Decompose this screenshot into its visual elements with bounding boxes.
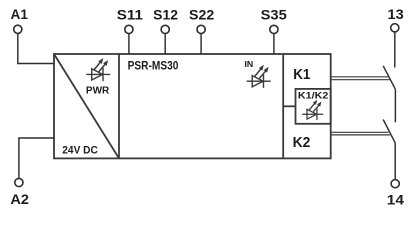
LED IN symbol xyxy=(247,66,271,88)
wire S11 xyxy=(128,34,130,54)
power supply diagonal xyxy=(54,54,119,158)
terminal A2 circle xyxy=(15,178,23,186)
svg-text:PWR: PWR xyxy=(86,86,110,97)
svg-text:S11: S11 xyxy=(117,8,144,23)
svg-text:13: 13 xyxy=(388,7,405,22)
mechanical linkage K2 double line xyxy=(331,131,389,133)
svg-text:PSR-MS30: PSR-MS30 xyxy=(128,59,179,73)
K section divider xyxy=(282,54,284,158)
terminal 13 circle xyxy=(391,24,399,32)
LED PWR symbol xyxy=(86,59,110,81)
wire between contacts xyxy=(394,89,396,122)
svg-text:K2: K2 xyxy=(293,134,311,151)
wire S12 xyxy=(164,34,166,54)
terminal S12 circle xyxy=(161,25,169,33)
svg-text:K1/K2: K1/K2 xyxy=(298,90,328,100)
wire K divider to K1/K2 box xyxy=(283,105,295,107)
terminal 14 circle xyxy=(391,180,399,188)
terminal S22 circle xyxy=(197,25,205,33)
svg-text:S22: S22 xyxy=(189,8,214,23)
svg-text:S12: S12 xyxy=(153,8,178,23)
wire terminal 13 to contact xyxy=(394,32,396,67)
contact K1 blade xyxy=(383,66,395,90)
power supply section divider xyxy=(118,54,120,158)
wire contact to terminal 14 xyxy=(394,143,396,179)
svg-text:IN: IN xyxy=(245,59,254,69)
svg-text:A1: A1 xyxy=(11,7,29,22)
wire A1 xyxy=(18,34,54,64)
contact K2 blade xyxy=(383,120,395,144)
main block outline xyxy=(54,54,331,158)
mechanical linkage K1 double line xyxy=(331,76,389,78)
terminal S11 circle xyxy=(125,25,133,33)
terminal S35 circle xyxy=(270,25,278,33)
wire A2 xyxy=(19,138,54,178)
wire S22 xyxy=(200,34,202,54)
svg-text:24V DC: 24V DC xyxy=(62,145,98,157)
terminal A1 circle xyxy=(14,25,22,33)
svg-text:S35: S35 xyxy=(261,8,288,23)
LED K1/K2 symbol xyxy=(302,101,323,121)
wire S35 xyxy=(273,34,275,54)
svg-text:K1: K1 xyxy=(293,66,310,83)
svg-text:14: 14 xyxy=(387,192,405,207)
svg-text:A2: A2 xyxy=(10,192,29,207)
K1/K2 LED box xyxy=(296,89,331,124)
